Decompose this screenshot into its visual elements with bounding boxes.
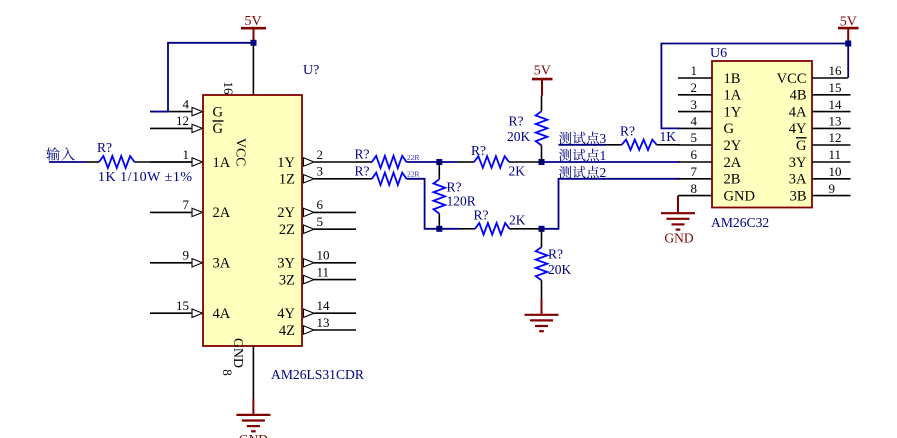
svg-text:3Y: 3Y <box>789 155 807 171</box>
pin 1 (left IC left side) <box>150 147 203 166</box>
pin 2 (U6 left) <box>678 80 742 104</box>
wire 5V to pin4 of U? <box>151 43 254 112</box>
svg-text:22R: 22R <box>407 153 420 162</box>
junction at 5V/pin16 <box>251 40 257 46</box>
pin 11 (U6 right) <box>789 147 851 171</box>
svg-text:R?: R? <box>474 208 489 223</box>
svg-text:2Y: 2Y <box>724 138 742 154</box>
resistor R? 20K pullup <box>541 96 543 112</box>
svg-text:7: 7 <box>691 164 698 179</box>
svg-text:R?: R? <box>447 180 462 195</box>
power 5V symbol (top left) <box>241 28 266 43</box>
svg-text:4: 4 <box>183 96 190 111</box>
pin 16 top stub (left IC VCC) <box>252 45 254 95</box>
svg-text:R?: R? <box>509 114 524 129</box>
wire 22R to node A <box>407 161 459 163</box>
svg-text:5V: 5V <box>244 14 261 29</box>
junction at 5V right <box>845 41 851 47</box>
net label 输入 (input) <box>46 147 74 160</box>
net label 测试点1 <box>559 149 599 162</box>
svg-text:1A: 1A <box>724 88 742 104</box>
svg-text:9: 9 <box>829 181 836 196</box>
pin 15 (left IC left side) <box>150 298 203 317</box>
svg-text:2B: 2B <box>724 172 741 188</box>
power 5V symbol (middle) <box>532 79 553 96</box>
svg-text:1: 1 <box>691 63 698 78</box>
wire 1Z row down to bottom row <box>407 179 461 229</box>
wire node B to U6 pin 6 (testpoint1 net) <box>539 161 680 163</box>
svg-text:3A: 3A <box>789 172 807 188</box>
svg-text:R?: R? <box>97 140 112 155</box>
svg-text:13: 13 <box>829 114 842 129</box>
svg-text:15: 15 <box>176 298 189 313</box>
svg-text:12: 12 <box>829 130 842 145</box>
svg-text:AM26C32: AM26C32 <box>711 215 769 230</box>
svg-text:4B: 4B <box>790 88 807 104</box>
svg-text:R?: R? <box>548 247 563 262</box>
svg-text:8: 8 <box>691 181 698 196</box>
IC U6 body AM26C32 <box>712 61 812 208</box>
pin names right column U? <box>277 155 295 339</box>
ground at U? pin 8 <box>252 399 254 415</box>
wire node D up to U6 pin 7 (testpoint2 net) <box>542 179 680 229</box>
svg-text:2Y: 2Y <box>277 205 295 221</box>
resistor R? 1K (to pin5 U6) <box>606 144 622 146</box>
pin 15 (U6 right) <box>790 80 851 104</box>
wire testpoint3 net <box>559 144 606 146</box>
svg-text:4Z: 4Z <box>279 323 295 339</box>
svg-text:7: 7 <box>183 197 190 212</box>
pin 12 (left IC left side) <box>150 113 203 132</box>
svg-text:2: 2 <box>600 165 607 180</box>
svg-text:16: 16 <box>829 63 843 78</box>
svg-text:3A: 3A <box>213 256 231 272</box>
svg-text:R?: R? <box>355 164 370 179</box>
svg-text:5V: 5V <box>534 64 551 79</box>
net label 测试点2 <box>559 166 599 179</box>
resistor R? 22R (row 1Y) <box>356 161 372 163</box>
pin 3 (U6 left) <box>678 97 742 121</box>
pin names left column U? <box>213 104 231 322</box>
svg-text:G: G <box>796 138 807 154</box>
junction node A <box>436 159 442 165</box>
pin 7 (U6 left) <box>678 164 740 188</box>
pin 6 (left IC right side) <box>304 197 357 216</box>
svg-text:10: 10 <box>317 248 330 263</box>
pin 13 (left IC right side) <box>304 315 357 334</box>
resistor R? 1K 1/10W input zigzag <box>99 156 135 168</box>
pin 6 (U6 left) <box>678 147 742 171</box>
svg-text:3: 3 <box>317 164 324 179</box>
pin 12 (U6 right) <box>796 130 850 154</box>
svg-text:1Y: 1Y <box>724 104 742 120</box>
pin 5 (U6 left) <box>678 130 742 154</box>
svg-text:G: G <box>724 121 735 137</box>
svg-text:10: 10 <box>829 164 842 179</box>
pin 7 (left IC left side) <box>150 197 203 216</box>
resistor R1 input leads <box>86 161 99 163</box>
wire input net <box>49 161 86 163</box>
svg-text:8: 8 <box>220 369 235 376</box>
svg-text:2Z: 2Z <box>279 222 295 238</box>
svg-text:13: 13 <box>317 315 330 330</box>
svg-text:R?: R? <box>355 147 370 162</box>
pin 2 (left IC right side) <box>304 147 357 166</box>
svg-text:9: 9 <box>183 248 190 263</box>
svg-text:1Z: 1Z <box>279 172 295 188</box>
svg-text:2: 2 <box>317 147 324 162</box>
pin 14 (left IC right side) <box>304 298 357 317</box>
svg-text:11: 11 <box>317 264 330 279</box>
svg-text:14: 14 <box>317 298 331 313</box>
svg-text:U6: U6 <box>710 46 727 61</box>
pin 9 (left IC left side) <box>150 248 203 267</box>
svg-text:1K: 1K <box>660 129 677 144</box>
pin 8 (U6 left) <box>678 181 755 205</box>
svg-text:GND: GND <box>724 188 755 204</box>
pin 4 (U6 left) <box>678 114 735 138</box>
svg-text:2A: 2A <box>724 155 742 171</box>
pin 9 (U6 right) <box>790 181 851 205</box>
svg-text:1: 1 <box>600 148 607 163</box>
svg-text:6: 6 <box>691 147 698 162</box>
svg-text:GND: GND <box>664 231 693 246</box>
svg-text:GND: GND <box>239 432 268 438</box>
svg-text:5: 5 <box>691 130 698 145</box>
resistor R? 20K pulldown <box>541 229 543 247</box>
svg-text:4A: 4A <box>213 306 231 322</box>
pin 10 (U6 right) <box>789 164 851 188</box>
ground at U6 pin 8 <box>677 196 679 214</box>
svg-text:20K: 20K <box>507 129 531 144</box>
svg-text:VCC: VCC <box>777 71 807 87</box>
op-amp U? IC body AM26LS31CDR <box>203 95 302 346</box>
svg-text:G: G <box>213 121 224 137</box>
svg-text:16: 16 <box>221 82 236 96</box>
svg-text:15: 15 <box>829 80 842 95</box>
svg-text:1K 1/10W ±1%: 1K 1/10W ±1% <box>98 170 192 185</box>
svg-text:14: 14 <box>829 97 843 112</box>
svg-text:22R: 22R <box>407 170 420 179</box>
svg-text:2K: 2K <box>509 213 526 228</box>
svg-text:G: G <box>213 104 224 120</box>
power 5V symbol (top right) <box>838 28 859 43</box>
svg-text:4Y: 4Y <box>789 121 807 137</box>
overline for G pin 12 (U6 right) <box>796 137 807 139</box>
pin 11 (left IC right side) <box>304 264 357 283</box>
junction node B (20K pullup bottom) <box>539 159 545 165</box>
resistor R? 2K (bottom row) <box>460 228 475 230</box>
svg-text:120R: 120R <box>447 194 476 209</box>
svg-text:1A: 1A <box>213 155 231 171</box>
svg-text:R?: R? <box>620 124 635 139</box>
pin 10 (left IC right side) <box>304 248 357 267</box>
pin 8 bottom stub (left IC GND) <box>252 346 254 399</box>
svg-text:R?: R? <box>471 143 486 158</box>
svg-text:5: 5 <box>317 214 324 229</box>
pin 4 (left IC left side) <box>150 96 203 115</box>
wire 5V to U6 pin16 and pin4 <box>661 44 848 129</box>
svg-text:1B: 1B <box>724 71 741 87</box>
svg-text:3B: 3B <box>790 188 807 204</box>
svg-text:1Y: 1Y <box>277 155 295 171</box>
svg-text:2: 2 <box>691 80 698 95</box>
svg-text:20K: 20K <box>548 262 572 277</box>
svg-text:6: 6 <box>317 197 324 212</box>
svg-text:2K: 2K <box>509 164 526 179</box>
pin 16 (U6 right) <box>777 63 848 87</box>
pin 1 (U6 left) <box>678 63 740 87</box>
resistor R? 22R (row 1Z) <box>356 178 372 180</box>
svg-text:11: 11 <box>829 147 842 162</box>
junction node D (20K pulldown top) <box>539 226 545 232</box>
svg-text:2A: 2A <box>213 205 231 221</box>
net label 测试点3 <box>559 132 599 145</box>
svg-text:5V: 5V <box>840 15 857 30</box>
svg-text:3: 3 <box>600 131 607 146</box>
svg-text:GND: GND <box>231 338 246 368</box>
svg-text:VCC: VCC <box>233 138 248 166</box>
svg-text:12: 12 <box>176 113 189 128</box>
svg-text:3: 3 <box>691 97 698 112</box>
svg-text:1: 1 <box>183 147 190 162</box>
pin 14 (U6 right) <box>789 97 851 121</box>
pin 13 (U6 right) <box>789 114 851 138</box>
junction node C (120R bottom) <box>436 226 442 232</box>
svg-text:4Y: 4Y <box>277 306 295 322</box>
pin 3 (left IC right side) <box>304 164 357 183</box>
pin 5 (left IC right side) <box>304 214 357 233</box>
svg-text:3Z: 3Z <box>279 272 295 288</box>
overline for second G <box>213 120 224 122</box>
svg-text:4A: 4A <box>789 104 807 120</box>
svg-text:4: 4 <box>691 114 698 129</box>
svg-text:U?: U? <box>303 63 319 78</box>
ground under 20K pulldown <box>541 299 543 315</box>
svg-text:AM26LS31CDR: AM26LS31CDR <box>271 367 365 382</box>
resistor R? 120R vertical <box>438 162 440 179</box>
svg-text:3Y: 3Y <box>277 256 295 272</box>
resistor R? 2K (row1) <box>458 161 474 163</box>
